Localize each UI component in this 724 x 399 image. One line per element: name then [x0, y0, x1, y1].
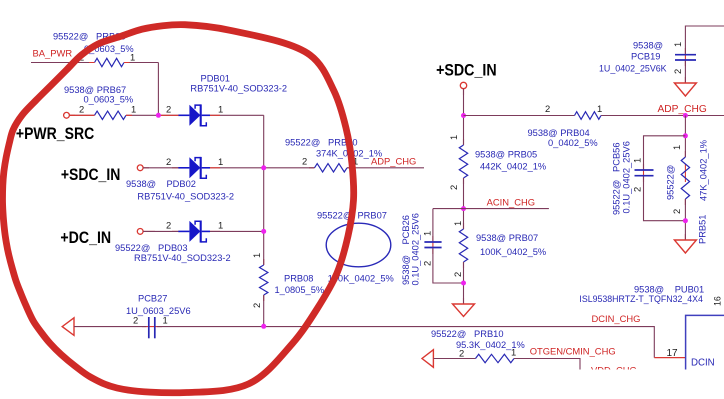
svg-text:PDB01: PDB01: [201, 73, 230, 83]
wire PDB02 in: [143, 167, 178, 169]
svg-text:RB751V-40_SOD323-2: RB751V-40_SOD323-2: [190, 84, 287, 94]
svg-text:2: 2: [545, 103, 550, 114]
svg-text:+DC_IN: +DC_IN: [60, 228, 111, 247]
resistor PRB51: [681, 157, 689, 199]
svg-text:PCB19: PCB19: [631, 52, 660, 62]
wire ACIN row: [433, 208, 549, 210]
svg-text:2: 2: [672, 69, 683, 74]
svg-text:1: 1: [218, 156, 223, 167]
svg-text:2: 2: [632, 187, 643, 192]
resistor PRB04: [575, 112, 602, 120]
red stub PDB01 right: [210, 114, 220, 116]
wire PRB04 row: [464, 115, 724, 117]
svg-text:0.1U_0402_25V6: 0.1U_0402_25V6: [622, 141, 632, 213]
svg-text:2: 2: [302, 156, 307, 167]
svg-text:9538@ PRB05: 9538@ PRB05: [475, 150, 537, 160]
svg-text:2: 2: [459, 348, 464, 359]
offpage arrow OTGEN: [422, 350, 433, 368]
wire PDB03 in: [143, 230, 178, 232]
svg-text:95522@: 95522@: [666, 165, 676, 200]
wire pin17 red: [654, 357, 685, 359]
wire OTGEN left: [433, 358, 475, 360]
wire PCB56 branch: [644, 136, 686, 221]
terminal +DC_IN: [137, 229, 143, 235]
svg-text:2: 2: [452, 272, 463, 277]
wire SDC column bottom: [463, 262, 465, 304]
svg-text:1: 1: [130, 52, 135, 63]
svg-text:0_0603_5%: 0_0603_5%: [84, 95, 134, 105]
svg-text:+SDC_IN: +SDC_IN: [436, 61, 497, 80]
wire PDB01 out: [210, 114, 264, 116]
svg-text:2: 2: [671, 209, 682, 214]
svg-text:OTGEN/CMIN_CHG: OTGEN/CMIN_CHG: [530, 346, 616, 357]
svg-text:16: 16: [713, 296, 723, 306]
svg-text:+PWR_SRC: +PWR_SRC: [16, 124, 94, 143]
junction SDC/PRB04: [461, 113, 466, 118]
junction BA_PWR/PRB67: [156, 113, 161, 118]
svg-text:1_0805_5%: 1_0805_5%: [275, 285, 325, 295]
terminal +SDC_IN right: [460, 82, 466, 88]
svg-text:17: 17: [667, 348, 679, 359]
svg-text:1: 1: [422, 231, 433, 236]
red pin stubs resistors H: [70, 63, 607, 359]
svg-text:ISL9538HRTZ-T_TQFN32_4X4: ISL9538HRTZ-T_TQFN32_4X4: [579, 294, 703, 304]
svg-text:1: 1: [452, 221, 463, 226]
svg-text:9538@ PRB04: 9538@ PRB04: [528, 128, 590, 138]
svg-text:95522@ PCB56: 95522@ PCB56: [612, 143, 622, 216]
svg-text:2: 2: [166, 104, 171, 115]
svg-text:9538@ PRB07: 9538@ PRB07: [476, 233, 538, 243]
junction PDB02 node: [261, 165, 266, 170]
white crop overlay: [0, 370, 724, 399]
svg-text:PUB01: PUB01: [675, 285, 704, 295]
svg-text:DCIN_CHG: DCIN_CHG: [592, 313, 641, 324]
svg-text:1: 1: [671, 145, 682, 150]
svg-text:9538@: 9538@: [634, 285, 664, 295]
svg-text:1: 1: [163, 315, 168, 326]
resistor PRB05: [459, 145, 467, 178]
svg-text:1: 1: [672, 42, 683, 47]
wire PRB70 out: [347, 167, 424, 169]
wire BA_PWR vertical drop: [157, 63, 159, 116]
annotation red circle: [3, 25, 354, 393]
svg-text:95522@ PRB10: 95522@ PRB10: [431, 329, 504, 339]
svg-text:9538@ PRB67: 9538@ PRB67: [64, 85, 126, 95]
junction PCB56/PRB51: [683, 218, 688, 223]
svg-text:442K_0402_1%: 442K_0402_1%: [480, 162, 546, 172]
svg-text:1: 1: [218, 104, 223, 115]
red pin stubs caps: [142, 48, 685, 327]
red stub PDB03 right: [210, 230, 220, 232]
wire PDB03 out: [210, 230, 264, 232]
wire PCB26 branch: [433, 209, 464, 283]
capacitor PCB26: [424, 242, 441, 248]
resistor PRB03: [95, 58, 125, 66]
resistor PRB08: [260, 265, 268, 295]
wire PRB51 bottom: [684, 199, 686, 240]
wire SDC column top: [463, 89, 465, 145]
junction ADP node: [683, 113, 688, 118]
wire DCIN left: [74, 326, 146, 328]
annotation blue ellipse PRB07: [326, 223, 391, 267]
ground ADP: [674, 240, 696, 253]
svg-text:1: 1: [448, 135, 459, 140]
svg-text:ADP_CHG: ADP_CHG: [658, 104, 707, 115]
wire PRB67 row: [70, 114, 179, 116]
svg-text:1: 1: [511, 347, 516, 358]
svg-text:2: 2: [422, 261, 433, 266]
resistor PRB07 vertical: [459, 229, 467, 262]
svg-text:BA_PWR: BA_PWR: [33, 47, 73, 58]
capacitor PCB56: [635, 170, 654, 176]
svg-text:95522@ PDB03: 95522@ PDB03: [115, 243, 188, 253]
ground PCB19: [674, 83, 696, 96]
svg-text:PRB08: PRB08: [284, 274, 313, 284]
junction ACIN node: [461, 206, 466, 211]
svg-text:9538@ PCB26: 9538@ PCB26: [401, 215, 411, 285]
resistor PRB10: [476, 354, 515, 362]
svg-text:9538@: 9538@: [633, 41, 663, 51]
svg-text:1: 1: [632, 158, 643, 163]
red stub PDB02 right: [210, 167, 220, 169]
svg-text:1U_0402_25V6K: 1U_0402_25V6K: [599, 64, 667, 74]
svg-text:PRB51: PRB51: [698, 215, 708, 244]
offpage arrow DCIN: [62, 318, 74, 336]
capacitor PCB19: [675, 55, 696, 60]
capacitor PCB27: [149, 317, 155, 338]
svg-text:ACIN_CHG: ACIN_CHG: [487, 197, 535, 208]
svg-text:2: 2: [166, 220, 171, 231]
svg-text:0.1U_0402_25V6: 0.1U_0402_25V6: [411, 213, 421, 285]
wire ADP column: [684, 116, 686, 158]
node column PDB outputs: [263, 115, 265, 265]
diode PDB02: [178, 157, 210, 179]
svg-text:2: 2: [79, 104, 84, 115]
svg-text:ADP_CHG: ADP_CHG: [371, 156, 416, 167]
svg-text:1: 1: [251, 253, 262, 258]
svg-text:PCB27: PCB27: [138, 293, 167, 303]
wire PRB08 bottom: [263, 295, 265, 326]
red stub PDB01 left: [161, 114, 179, 116]
wire PCB19 top: [685, 26, 724, 83]
wire PDB02 out: [210, 167, 315, 169]
svg-text:2: 2: [133, 315, 138, 326]
red pin stubs grounds: [69, 77, 685, 304]
svg-text:1: 1: [597, 103, 602, 114]
junction ADP branch: [683, 133, 688, 138]
junction DCIN/PRB08: [261, 324, 266, 329]
ground ACIN: [453, 304, 475, 317]
svg-text:1: 1: [218, 220, 223, 231]
svg-text:1: 1: [131, 104, 136, 115]
svg-text:DCIN: DCIN: [691, 358, 715, 369]
red stub PDB02 left: [172, 167, 178, 169]
wire DCIN main: [157, 327, 654, 358]
svg-text:100K_0402_5%: 100K_0402_5%: [480, 247, 546, 257]
red stub PDB03 left: [172, 230, 178, 232]
svg-text:9538@ PDB02: 9538@ PDB02: [126, 179, 196, 189]
red pin stubs resistors V: [264, 139, 686, 301]
svg-text:2: 2: [166, 156, 171, 167]
terminal +SDC_IN left: [137, 165, 143, 171]
resistor PRB67: [95, 111, 127, 119]
wire BA_PWR horizontal: [31, 62, 158, 64]
op-amp U1 body outline PUB01: [686, 315, 724, 375]
svg-text:47K_0402_1%: 47K_0402_1%: [699, 140, 709, 201]
diode PDB03: [178, 221, 210, 243]
wire SDC column mid: [463, 178, 465, 229]
svg-text:2: 2: [251, 303, 262, 308]
svg-text:RB751V-40_SOD323-2: RB751V-40_SOD323-2: [134, 253, 231, 263]
svg-text:RB751V-40_SOD323-2: RB751V-40_SOD323-2: [137, 191, 234, 201]
svg-text:2: 2: [448, 185, 459, 190]
junction PDB03 node: [261, 229, 266, 234]
resistor PRB70: [315, 164, 348, 172]
junction PRB07/PCB26: [461, 281, 466, 286]
svg-text:+SDC_IN: +SDC_IN: [61, 165, 120, 184]
terminal +PWR_SRC: [64, 112, 70, 118]
svg-text:0_0402_5%: 0_0402_5%: [548, 138, 598, 148]
diode PDB01: [178, 104, 210, 126]
wire OTGEN right: [514, 359, 580, 376]
